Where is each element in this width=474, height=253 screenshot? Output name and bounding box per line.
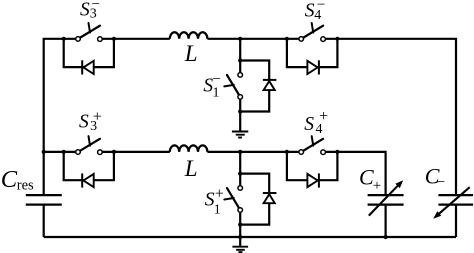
diode D4- (antiparallel, pointing right): [307, 60, 319, 74]
svg-text:+: +: [319, 108, 328, 125]
wire top rail right segment: [326, 39, 456, 195]
label C-: [425, 163, 445, 190]
node dot C+ bottom rail: [384, 235, 388, 239]
diode D1+ (pointing up): [263, 193, 277, 203]
label Cres: [1, 166, 34, 194]
svg-text:1: 1: [214, 202, 221, 217]
wire top rail left segment: [44, 39, 76, 195]
diode D4+ (antiparallel, pointing right): [307, 173, 319, 187]
switch S1+ branch wires: [240, 152, 269, 246]
svg-text:−: −: [213, 71, 221, 87]
node dot S4- left: [285, 37, 289, 41]
svg-text:+: +: [93, 109, 102, 126]
inductor L top: [170, 32, 208, 39]
node dot left vertical / middle rail: [42, 150, 46, 154]
node after L top: [238, 37, 242, 41]
switch S1- contacts and blade: [224, 73, 242, 100]
wire left vertical below Cres: [43, 205, 45, 237]
svg-text:−: −: [92, 0, 100, 13]
svg-text:L: L: [184, 156, 198, 181]
switch S3+ contacts and blade: [76, 136, 103, 154]
svg-text:1: 1: [213, 86, 220, 101]
inductor L bottom: [170, 145, 208, 152]
switch S4+ contacts and blade: [299, 136, 326, 154]
svg-text:+: +: [215, 185, 224, 202]
node dot S1+ top: [238, 172, 242, 176]
capacitor C+ variable arrow: [369, 180, 403, 215]
node dot S1+ on bottom rail: [238, 235, 242, 239]
label S1+: [205, 185, 224, 217]
wire middle rail left segment: [44, 151, 76, 153]
svg-text:−: −: [437, 174, 445, 190]
svg-text:S: S: [305, 0, 315, 21]
node dot S4+ left: [285, 150, 289, 154]
switch S4- contacts and blade: [299, 23, 326, 41]
capacitor C- plates: [438, 195, 473, 205]
node dot S3+ left: [62, 150, 66, 154]
svg-text:C: C: [1, 166, 18, 193]
label S3+: [79, 109, 102, 135]
node dot S1- top: [238, 58, 242, 62]
wire C+ bottom to rail: [385, 205, 387, 237]
label S1-: [203, 71, 221, 100]
svg-text:−: −: [317, 0, 325, 13]
wire middle rail right segment to C+: [326, 152, 386, 195]
wire top rail middle segment right of L: [207, 38, 298, 40]
wire top rail middle segment left of L: [103, 38, 170, 40]
svg-text:C: C: [359, 164, 374, 189]
switch S1+ contacts and blade: [224, 186, 242, 213]
switch S4+ loop wires: [287, 152, 338, 180]
ground lower: [232, 247, 248, 252]
label S3-: [80, 0, 100, 22]
ground upper: [232, 132, 248, 138]
node dot S3- right: [112, 37, 116, 41]
svg-text:S: S: [79, 111, 89, 132]
node dot S4- right: [335, 37, 339, 41]
diode D1- (pointing up): [263, 80, 277, 90]
node dot S4+ right: [335, 150, 339, 154]
svg-text:L: L: [184, 41, 198, 66]
label S4-: [305, 0, 326, 23]
svg-text:S: S: [80, 0, 90, 20]
capacitor C+ plates: [368, 195, 404, 205]
diode D3- (antiparallel, pointing left): [82, 60, 94, 74]
switch S3- contacts and blade: [76, 23, 103, 41]
switch S1- branch wires: [240, 39, 269, 132]
wire middle rail center segment right of L: [207, 151, 298, 153]
capacitor C- variable arrow: [433, 187, 470, 219]
node dot S3+ right: [112, 150, 116, 154]
wire middle rail center segment left of L: [103, 151, 170, 153]
svg-text:+: +: [373, 178, 381, 194]
node dot S1+ bottom: [238, 223, 242, 227]
node dot S3- left: [62, 37, 66, 41]
switch S3- loop wires: [64, 39, 114, 67]
svg-text:S: S: [304, 114, 314, 135]
capacitor Cres plates: [26, 195, 62, 205]
switch S3+ loop wires: [64, 152, 114, 180]
switch S4- loop wires: [287, 39, 338, 67]
label S4+: [304, 108, 328, 137]
svg-text:res: res: [17, 178, 34, 194]
wire C- bottom to rail: [455, 205, 457, 237]
label C+: [359, 164, 381, 193]
node dot S1- bottom: [238, 109, 242, 113]
diode D3+ (antiparallel, pointing left): [82, 173, 94, 187]
node after L bottom: [238, 150, 242, 154]
wire bottom rail: [44, 236, 456, 238]
